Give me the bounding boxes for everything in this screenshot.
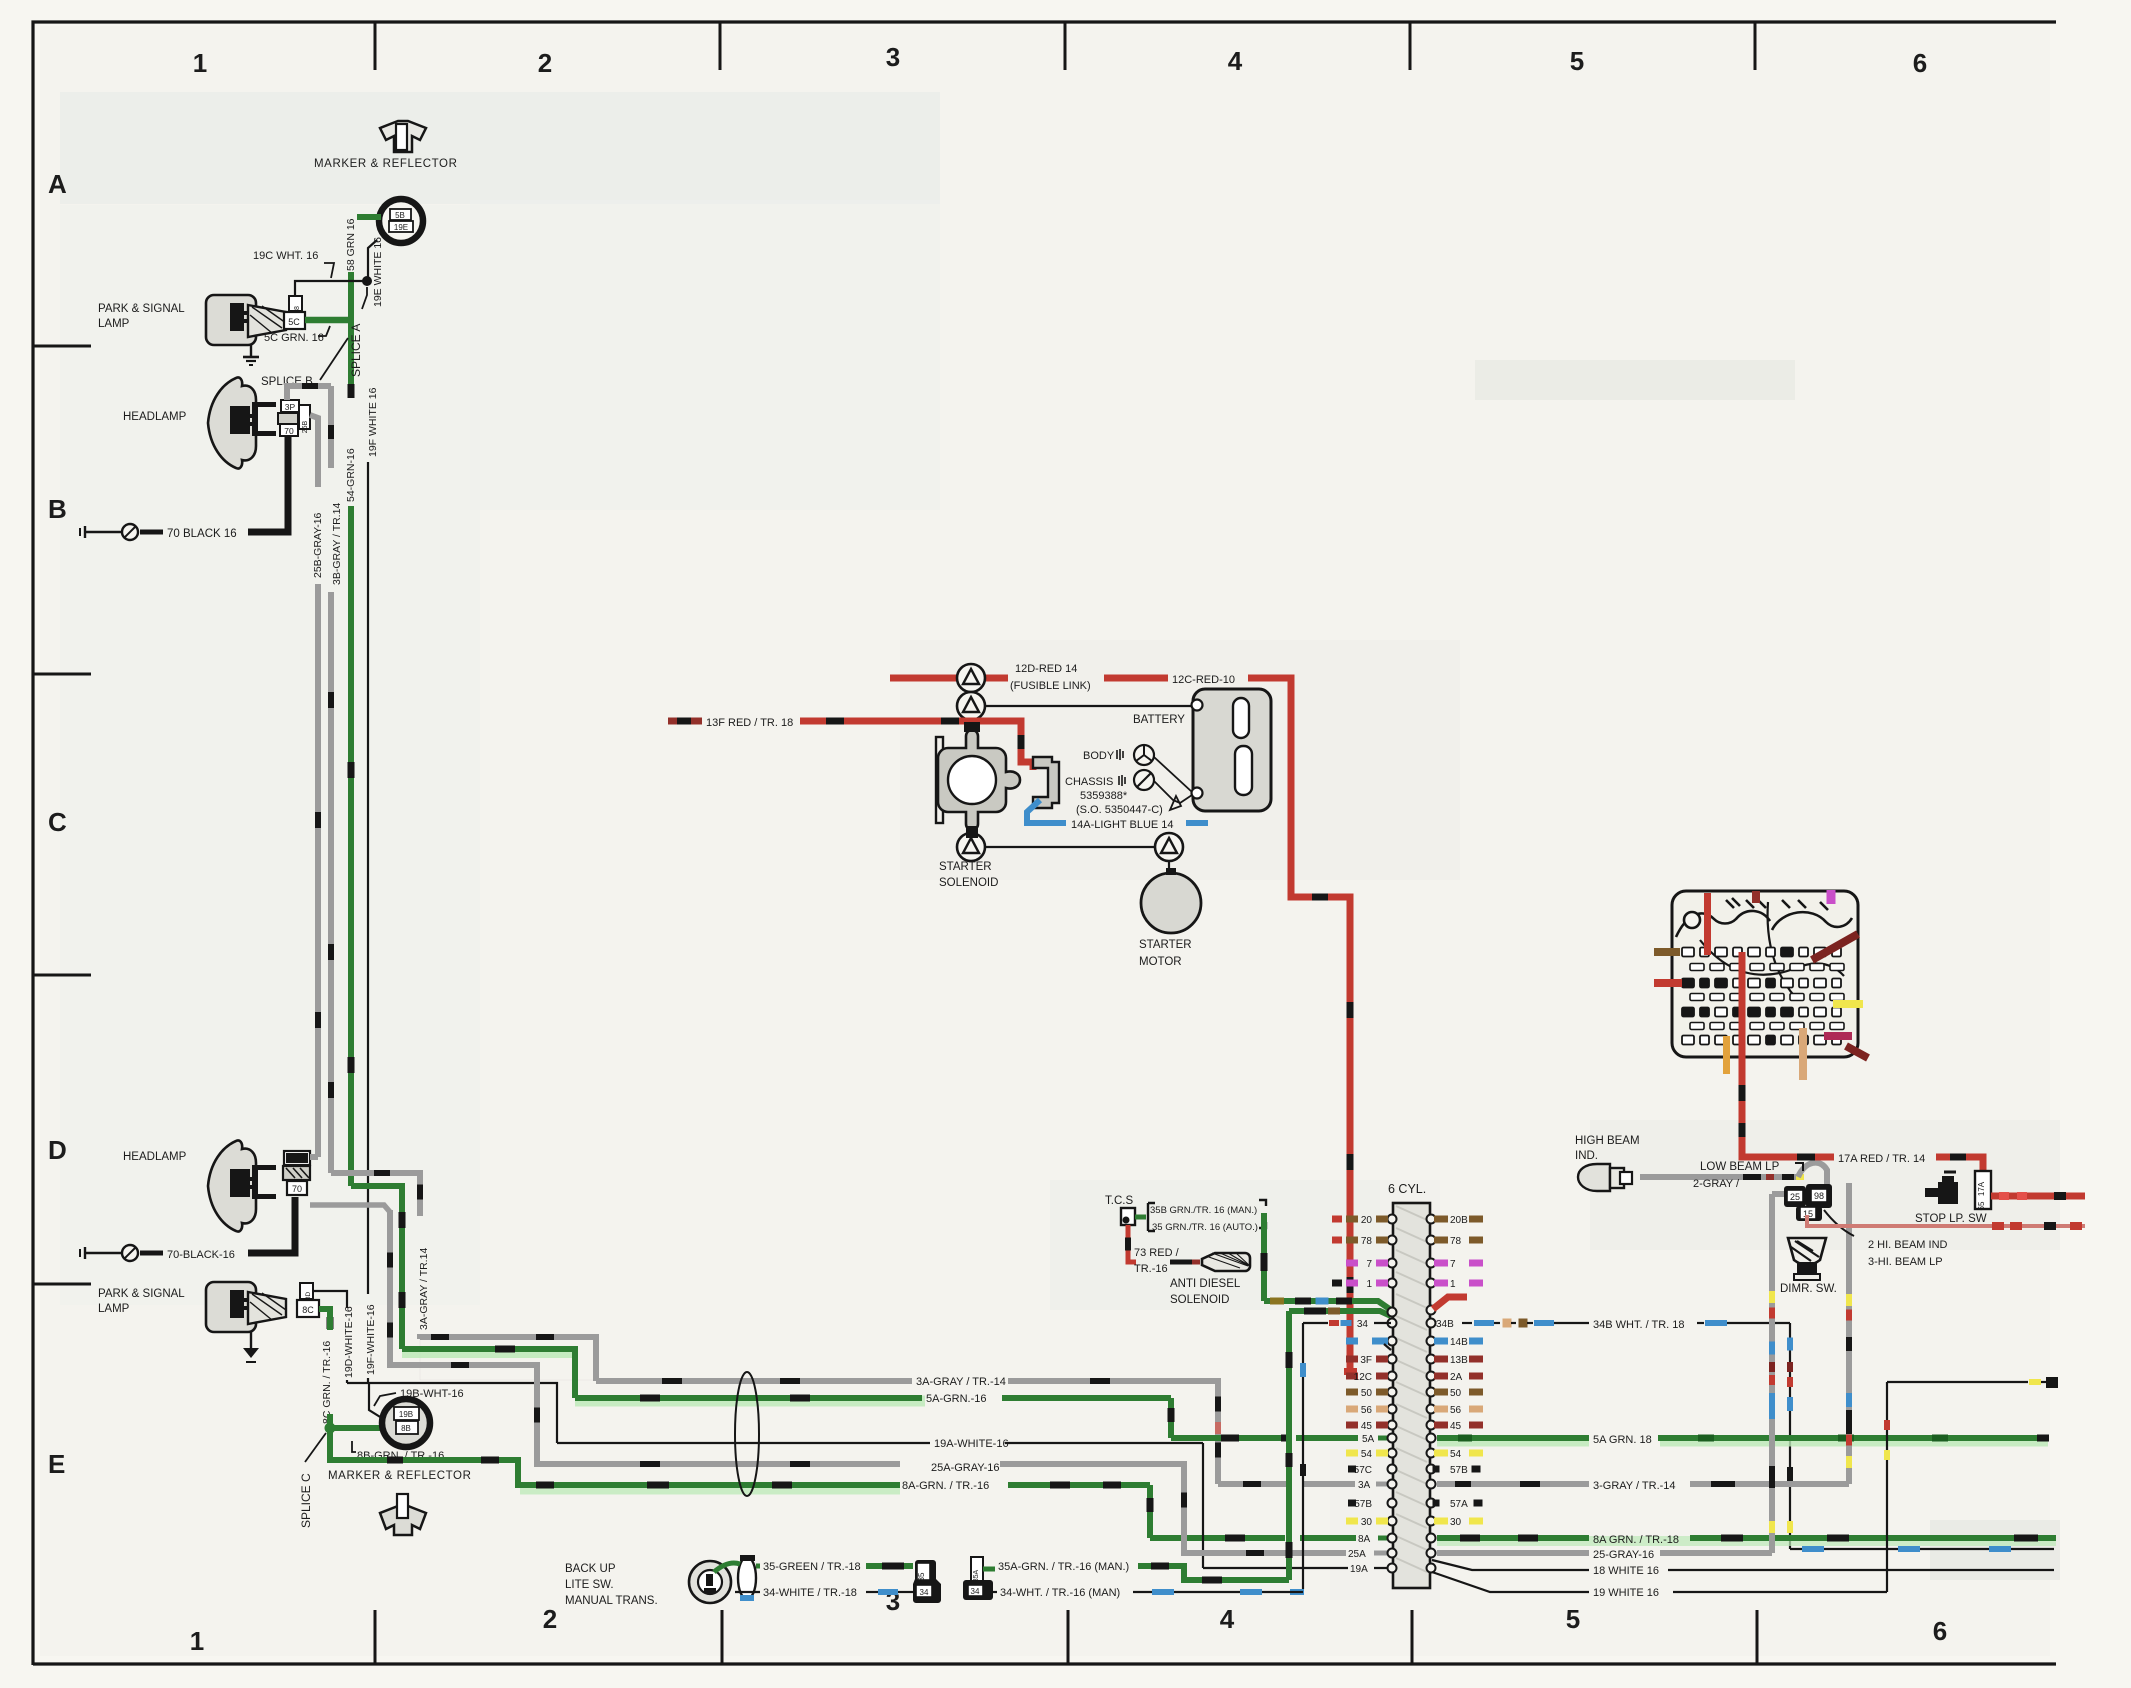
wire 25B gray into connector D	[310, 1154, 318, 1160]
svg-text:HEADLAMP: HEADLAMP	[123, 411, 187, 423]
svg-text:BATTERY: BATTERY	[1133, 714, 1185, 726]
wire 13F RED / TR-18	[668, 718, 702, 725]
svg-text:19F WHITE 16: 19F WHITE 16	[367, 387, 379, 457]
svg-text:3: 3	[886, 42, 900, 72]
svg-text:12C-RED-10: 12C-RED-10	[1172, 674, 1235, 686]
svg-text:14B: 14B	[1450, 1337, 1468, 1348]
svg-text:IND.: IND.	[1575, 1150, 1598, 1162]
svg-text:5A: 5A	[1362, 1434, 1375, 1445]
svg-text:1: 1	[1366, 1279, 1372, 1290]
svg-text:34: 34	[920, 1588, 929, 1597]
svg-text:18 WHITE 16: 18 WHITE 16	[1593, 1565, 1659, 1577]
wire 19C WHT 16 thin	[295, 281, 367, 300]
wire 17A RED / TR 14	[1742, 1060, 1834, 1157]
wire gray vertical (high beam x=1849)	[1846, 1183, 1852, 1484]
fuse box colored stubs	[1654, 948, 1680, 956]
svg-text:LOW BEAM LP: LOW BEAM LP	[1700, 1161, 1780, 1173]
wire splice C down + 8A run	[520, 1484, 900, 1495]
wire 35-GREEN/TR-18	[714, 1563, 740, 1572]
fuse slots	[1682, 948, 1694, 957]
harness ellipse	[735, 1372, 759, 1496]
svg-text:35 GRN./TR. 16 (AUTO.): 35 GRN./TR. 16 (AUTO.)	[1152, 1222, 1258, 1233]
svg-text:1: 1	[193, 48, 207, 78]
svg-text:SOLENOID: SOLENOID	[1170, 1294, 1229, 1306]
svg-text:DIMR. SW.: DIMR. SW.	[1780, 1283, 1837, 1295]
connector D boxes	[284, 1151, 310, 1165]
wire 34B WHT/TR 18 run	[1462, 1322, 1472, 1324]
svg-text:(S.O. 5350447-C): (S.O. 5350447-C)	[1076, 804, 1163, 816]
svg-text:25A: 25A	[1348, 1549, 1366, 1560]
connector 3D/8C boxes (row E)	[300, 1283, 313, 1299]
svg-text:19B: 19B	[399, 1410, 413, 1419]
wire 3A vertical resume + run right	[417, 1334, 423, 1339]
battery icon	[1193, 689, 1271, 811]
svg-text:25B: 25B	[302, 420, 309, 433]
svg-text:3-GRAY / TR.-14: 3-GRAY / TR.-14	[1593, 1480, 1676, 1492]
wire connector stub to 25A vertical	[310, 1205, 390, 1212]
svg-text:8C GRN. / TR.-16: 8C GRN. / TR.-16	[321, 1341, 333, 1424]
svg-text:12C: 12C	[1354, 1372, 1372, 1383]
svg-text:HIGH BEAM: HIGH BEAM	[1575, 1135, 1640, 1147]
svg-text:57B: 57B	[1354, 1499, 1372, 1510]
svg-text:4: 4	[1228, 46, 1243, 76]
wire 70 BLACK D + ground	[248, 1197, 295, 1253]
svg-text:30: 30	[1361, 1517, 1373, 1528]
thin leads to battery terminal	[1154, 757, 1192, 792]
svg-text:2 HI. BEAM IND: 2 HI. BEAM IND	[1868, 1239, 1948, 1251]
connector pin bumps	[1388, 1215, 1397, 1224]
fuse box body	[1672, 891, 1858, 1057]
svg-text:65: 65	[1977, 1201, 1986, 1210]
wire 3B-GRAY vertical to row D	[328, 386, 334, 462]
wire splice C to grommet E	[330, 1425, 393, 1431]
svg-text:3P: 3P	[285, 402, 296, 412]
svg-text:1: 1	[1450, 1279, 1456, 1290]
svg-text:19 WHITE 16: 19 WHITE 16	[1593, 1587, 1659, 1599]
svg-text:57B: 57B	[1450, 1465, 1468, 1476]
svg-text:58 GRN 16: 58 GRN 16	[345, 218, 357, 271]
wire 5A-GRN long run	[575, 1396, 925, 1407]
wire tcs green stub	[1135, 1215, 1146, 1220]
svg-text:CHASSIS: CHASSIS	[1065, 776, 1113, 788]
wire 19 junction horizontal	[347, 1383, 557, 1443]
svg-text:6: 6	[1933, 1616, 1947, 1646]
wire 73 RED to anti-diesel	[1128, 1225, 1136, 1262]
svg-text:2-GRAY /: 2-GRAY /	[1693, 1178, 1740, 1190]
wire 8A run right of label	[1008, 1482, 1150, 1488]
wire 34-WHITE/TR-18	[735, 1591, 760, 1593]
wire stop lamp red to edge	[1991, 1193, 2085, 1200]
svg-text:35: 35	[917, 1572, 926, 1581]
wire 12D RED 14 (fusible link)	[890, 675, 1008, 682]
svg-text:57C: 57C	[1354, 1465, 1372, 1476]
svg-text:STARTER: STARTER	[939, 861, 992, 873]
svg-text:5B: 5B	[395, 211, 405, 220]
svg-text:5: 5	[1570, 46, 1584, 76]
svg-text:2A: 2A	[1450, 1372, 1463, 1383]
headlamp B icon	[208, 377, 256, 468]
svg-text:19D-WHITE-16: 19D-WHITE-16	[343, 1306, 355, 1378]
wire 3B gray to 3A run	[331, 1170, 420, 1176]
wire green into pin (lower)	[1289, 1311, 1391, 1316]
svg-text:6: 6	[1913, 48, 1927, 78]
svg-text:MARKER & REFLECTOR: MARKER & REFLECTOR	[328, 1470, 472, 1482]
svg-text:19E WHITE 16: 19E WHITE 16	[372, 237, 384, 307]
svg-text:19E: 19E	[394, 223, 408, 232]
node splice A junction dot	[363, 277, 372, 286]
svg-text:2: 2	[538, 48, 552, 78]
wire gray 3B from 3P up/right	[287, 386, 331, 400]
svg-text:8A GRN. / TR.-18: 8A GRN. / TR.-18	[1593, 1534, 1679, 1546]
wire 2-GRAY from high beam ind	[1640, 1174, 1800, 1180]
svg-text:70: 70	[292, 1184, 302, 1194]
backup connector pair 2	[971, 1557, 983, 1581]
svg-text:19C WHT. 16: 19C WHT. 16	[253, 250, 318, 262]
svg-text:56: 56	[1361, 1405, 1373, 1416]
svg-text:5A-GRN.-16: 5A-GRN.-16	[926, 1393, 987, 1405]
bracket marks	[1148, 1203, 1155, 1231]
svg-text:25A-GRAY-16: 25A-GRAY-16	[931, 1462, 999, 1474]
svg-text:5359388*: 5359388*	[1080, 790, 1128, 802]
svg-text:3A: 3A	[1358, 1480, 1371, 1491]
svg-text:57A: 57A	[1450, 1499, 1468, 1510]
wire 19A-WHITE long run	[557, 1442, 930, 1444]
svg-text:30: 30	[1450, 1517, 1462, 1528]
starter motor	[1141, 873, 1201, 933]
pin 1 extra black dash	[1332, 1280, 1342, 1287]
stop lamp switch icon	[1938, 1182, 1958, 1204]
green stub 35A	[983, 1567, 995, 1572]
wire 19 white up + right branch	[1886, 1382, 1888, 1592]
svg-text:8C: 8C	[302, 1305, 314, 1315]
svg-text:54: 54	[1450, 1449, 1462, 1460]
svg-text:8A-GRN. / TR.-16: 8A-GRN. / TR.-16	[902, 1480, 989, 1492]
thin stub 34 right	[986, 1591, 997, 1593]
svg-text:3A-GRAY / TR.-14: 3A-GRAY / TR.-14	[916, 1376, 1006, 1388]
connector boxes 3P/70/25B	[281, 400, 299, 412]
wire 5C GRN 16	[305, 317, 351, 324]
svg-text:54: 54	[1361, 1449, 1373, 1460]
svg-text:HEADLAMP: HEADLAMP	[123, 1151, 187, 1163]
svg-text:E: E	[48, 1449, 65, 1479]
svg-text:13B: 13B	[1450, 1355, 1468, 1366]
svg-text:98: 98	[1814, 1191, 1824, 1201]
svg-text:20B: 20B	[1450, 1215, 1468, 1226]
marker & reflector icon (top)	[380, 121, 426, 152]
ground at park lamp E	[250, 1332, 252, 1348]
stop lamp connector 65/17A	[1975, 1171, 1991, 1209]
wire 34 blue-dash line to right edge	[1790, 1548, 2054, 1550]
dimmer connector boxes 25/98/15	[1784, 1186, 1806, 1207]
svg-text:34B WHT. / TR. 18: 34B WHT. / TR. 18	[1593, 1319, 1685, 1331]
svg-text:19F-WHITE-16: 19F-WHITE-16	[365, 1304, 377, 1375]
svg-text:54-GRN-16: 54-GRN-16	[345, 448, 357, 502]
fuse box small top pins	[1726, 898, 1828, 910]
wire gray vertical (low beam feed x=1772)	[1769, 1194, 1775, 1553]
gray hump over connector	[1798, 1163, 1827, 1186]
wire 70 BLACK 16 w/ ground	[248, 436, 288, 532]
svg-text:STOP LP. SW: STOP LP. SW	[1915, 1213, 1987, 1225]
svg-text:B: B	[48, 494, 67, 524]
svg-text:T.C.S: T.C.S	[1105, 1195, 1133, 1207]
gray from 25 box to low-beam vertical	[1772, 1191, 1786, 1197]
svg-text:19A: 19A	[1350, 1564, 1368, 1575]
svg-text:SPLICE C: SPLICE C	[299, 1473, 313, 1528]
svg-text:D: D	[48, 1135, 67, 1165]
headlamp D icon	[208, 1140, 256, 1231]
svg-text:25-GRAY-16: 25-GRAY-16	[1593, 1549, 1654, 1561]
svg-text:78: 78	[1361, 1236, 1373, 1247]
svg-text:5A GRN. 18: 5A GRN. 18	[1593, 1434, 1652, 1446]
svg-text:STARTER: STARTER	[1139, 939, 1192, 951]
backup connector pair 1	[913, 1560, 941, 1603]
wire pink 15 to right edge	[1807, 1215, 2085, 1226]
wire 3-GRAY/TR-14 right run	[1437, 1481, 1589, 1487]
svg-text:78: 78	[1450, 1236, 1462, 1247]
svg-text:3F: 3F	[1360, 1355, 1372, 1366]
svg-text:70: 70	[284, 426, 294, 436]
svg-text:MARKER & REFLECTOR: MARKER & REFLECTOR	[314, 158, 458, 170]
ground at park lamp A	[250, 345, 252, 357]
svg-text:1: 1	[190, 1626, 204, 1656]
wire 8A GRN/TR-18 right run	[1437, 1536, 2056, 1546]
svg-text:7: 7	[1450, 1259, 1456, 1270]
dimmer switch icon	[1788, 1238, 1826, 1265]
svg-text:LAMP: LAMP	[98, 1303, 130, 1315]
svg-text:3D: 3D	[305, 1292, 312, 1301]
svg-text:12D-RED 14: 12D-RED 14	[1015, 663, 1077, 675]
svg-text:35-GREEN / TR.-18: 35-GREEN / TR.-18	[763, 1561, 861, 1573]
wire battery feed thin	[985, 705, 1196, 707]
svg-text:35B GRN./TR. 16 (MAN.): 35B GRN./TR. 16 (MAN.)	[1150, 1205, 1257, 1216]
wire 58/54 green vertical (splice A area)	[348, 272, 354, 388]
wire 3A-GRAY long run	[596, 1378, 912, 1384]
svg-text:C: C	[48, 807, 67, 837]
backup switch icon	[689, 1561, 731, 1603]
svg-text:2: 2	[543, 1604, 557, 1634]
svg-text:MOTOR: MOTOR	[1139, 956, 1182, 968]
leader to 2HI/3HI labels	[1824, 1210, 1854, 1236]
wire 35 green vertical tcs	[1261, 1213, 1267, 1301]
wire 8C green stub + vertical	[319, 1306, 333, 1312]
svg-text:34B: 34B	[1436, 1319, 1454, 1330]
svg-text:8B: 8B	[401, 1424, 411, 1433]
svg-text:14A-LIGHT BLUE 14: 14A-LIGHT BLUE 14	[1071, 819, 1174, 831]
wire solenoid-motor thin	[985, 846, 1155, 848]
svg-text:(FUSIBLE LINK): (FUSIBLE LINK)	[1010, 680, 1091, 692]
svg-text:5C: 5C	[288, 317, 300, 327]
wire 5A GRN 18 right run	[1437, 1436, 1589, 1447]
svg-text:25B-GRAY-16: 25B-GRAY-16	[312, 512, 324, 578]
svg-text:LAMP: LAMP	[98, 318, 130, 330]
svg-text:7: 7	[1366, 1259, 1372, 1270]
svg-text:13F RED / TR. 18: 13F RED / TR. 18	[706, 717, 793, 729]
svg-text:50: 50	[1361, 1388, 1373, 1399]
svg-text:PARK & SIGNAL: PARK & SIGNAL	[98, 1288, 185, 1300]
svg-text:PARK & SIGNAL: PARK & SIGNAL	[98, 303, 185, 315]
svg-text:19A-WHITE-16: 19A-WHITE-16	[934, 1438, 1009, 1450]
svg-text:35A-GRN. / TR.-16 (MAN.): 35A-GRN. / TR.-16 (MAN.)	[998, 1561, 1129, 1573]
svg-text:45: 45	[1450, 1421, 1462, 1432]
wire 25-GRAY-16 right	[1437, 1550, 1589, 1556]
svg-text:SPLICE A: SPLICE A	[349, 324, 363, 377]
wire 19E WHITE 16 (grommet to junction dot)	[368, 240, 377, 281]
svg-text:70-BLACK-16: 70-BLACK-16	[167, 1249, 235, 1261]
svg-text:4: 4	[1220, 1604, 1235, 1634]
wire 12C red battery to connector	[1248, 678, 1350, 1371]
svg-text:TR.-16: TR.-16	[1134, 1263, 1168, 1275]
connector symbol triangles	[957, 664, 985, 692]
wire 35A green vertical down to backup	[1286, 1311, 1292, 1580]
wire 3A into pin	[1218, 1481, 1288, 1487]
park & signal lamp A icon	[206, 295, 256, 345]
svg-text:5: 5	[1566, 1604, 1580, 1634]
svg-text:SOLENOID: SOLENOID	[939, 877, 998, 889]
svg-text:34: 34	[1357, 1319, 1369, 1330]
svg-text:70 BLACK 16: 70 BLACK 16	[167, 528, 237, 540]
pin 14B left stub	[1372, 1338, 1384, 1345]
svg-text:45: 45	[1361, 1421, 1373, 1432]
bulb capsule	[738, 1557, 756, 1599]
svg-text:BODY: BODY	[1083, 750, 1115, 762]
svg-text:A: A	[48, 169, 67, 199]
grommet connector circle A (5B/19E)	[379, 199, 423, 243]
svg-text:25: 25	[1790, 1192, 1800, 1202]
svg-text:6 CYL.: 6 CYL.	[1388, 1182, 1426, 1196]
wire 54 green D corner to 5A run	[351, 1186, 402, 1349]
fuse box top gasket arcs	[1676, 911, 1770, 937]
wire 34 thin (to backup sw)	[1303, 1322, 1328, 1324]
park & signal lamp E icon	[206, 1282, 256, 1332]
wire 25B gray from box down to row D	[310, 415, 318, 487]
svg-text:ANTI DIESEL: ANTI DIESEL	[1170, 1278, 1241, 1290]
svg-text:34-WHT. / TR.-16 (MAN): 34-WHT. / TR.-16 (MAN)	[1000, 1587, 1120, 1599]
svg-text:MANUAL TRANS.: MANUAL TRANS.	[565, 1595, 658, 1607]
svg-text:8: 8	[294, 306, 301, 310]
wire 19B drop into grommet E	[369, 1383, 394, 1423]
svg-text:20: 20	[1361, 1215, 1373, 1226]
grommet connector circle E (19B/8B)	[382, 1399, 430, 1447]
svg-text:56: 56	[1450, 1405, 1462, 1416]
starter solenoid icon	[936, 737, 943, 823]
wire 19D from 3D box	[313, 1291, 347, 1308]
wire 18 WHITE 16	[1432, 1560, 1589, 1570]
svg-text:8A: 8A	[1358, 1534, 1371, 1545]
svg-text:5C GRN. 16: 5C GRN. 16	[264, 332, 324, 344]
wire 58 GRN 16 into grommet A	[357, 214, 381, 220]
svg-text:17A RED / TR. 14: 17A RED / TR. 14	[1838, 1153, 1925, 1165]
svg-text:3B-GRAY / TR.14: 3B-GRAY / TR.14	[331, 503, 343, 585]
connector 5C / 8C boxes	[289, 296, 302, 311]
svg-text:3-HI. BEAM LP: 3-HI. BEAM LP	[1868, 1256, 1943, 1268]
svg-text:34: 34	[971, 1587, 980, 1596]
svg-text:BACK UP: BACK UP	[565, 1563, 616, 1575]
anti diesel solenoid capsule	[1202, 1253, 1250, 1271]
pin 20 red dash	[1332, 1216, 1342, 1223]
svg-text:17A: 17A	[1977, 1181, 1986, 1196]
wire green into pin (upper)	[1264, 1301, 1391, 1310]
svg-text:LITE SW.: LITE SW.	[565, 1579, 614, 1591]
pin stubs + labels (short rows)	[1346, 1216, 1358, 1223]
wire 14A light blue	[1027, 800, 1066, 823]
wire 25A-GRAY long run	[390, 1210, 900, 1464]
red arrow into pin (from ign feed)	[1433, 1297, 1467, 1309]
svg-text:73 RED /: 73 RED /	[1134, 1247, 1180, 1259]
C-clamp bracket	[1033, 757, 1059, 808]
wire 19 WHITE 16	[1432, 1572, 1589, 1592]
svg-text:34-WHITE / TR.-18: 34-WHITE / TR.-18	[763, 1587, 857, 1599]
fuse box crossing wires	[1700, 940, 1844, 976]
svg-text:3A-GRAY / TR.14: 3A-GRAY / TR.14	[418, 1248, 430, 1330]
svg-text:50: 50	[1450, 1388, 1462, 1399]
node SPLICE C dot	[325, 1423, 335, 1433]
